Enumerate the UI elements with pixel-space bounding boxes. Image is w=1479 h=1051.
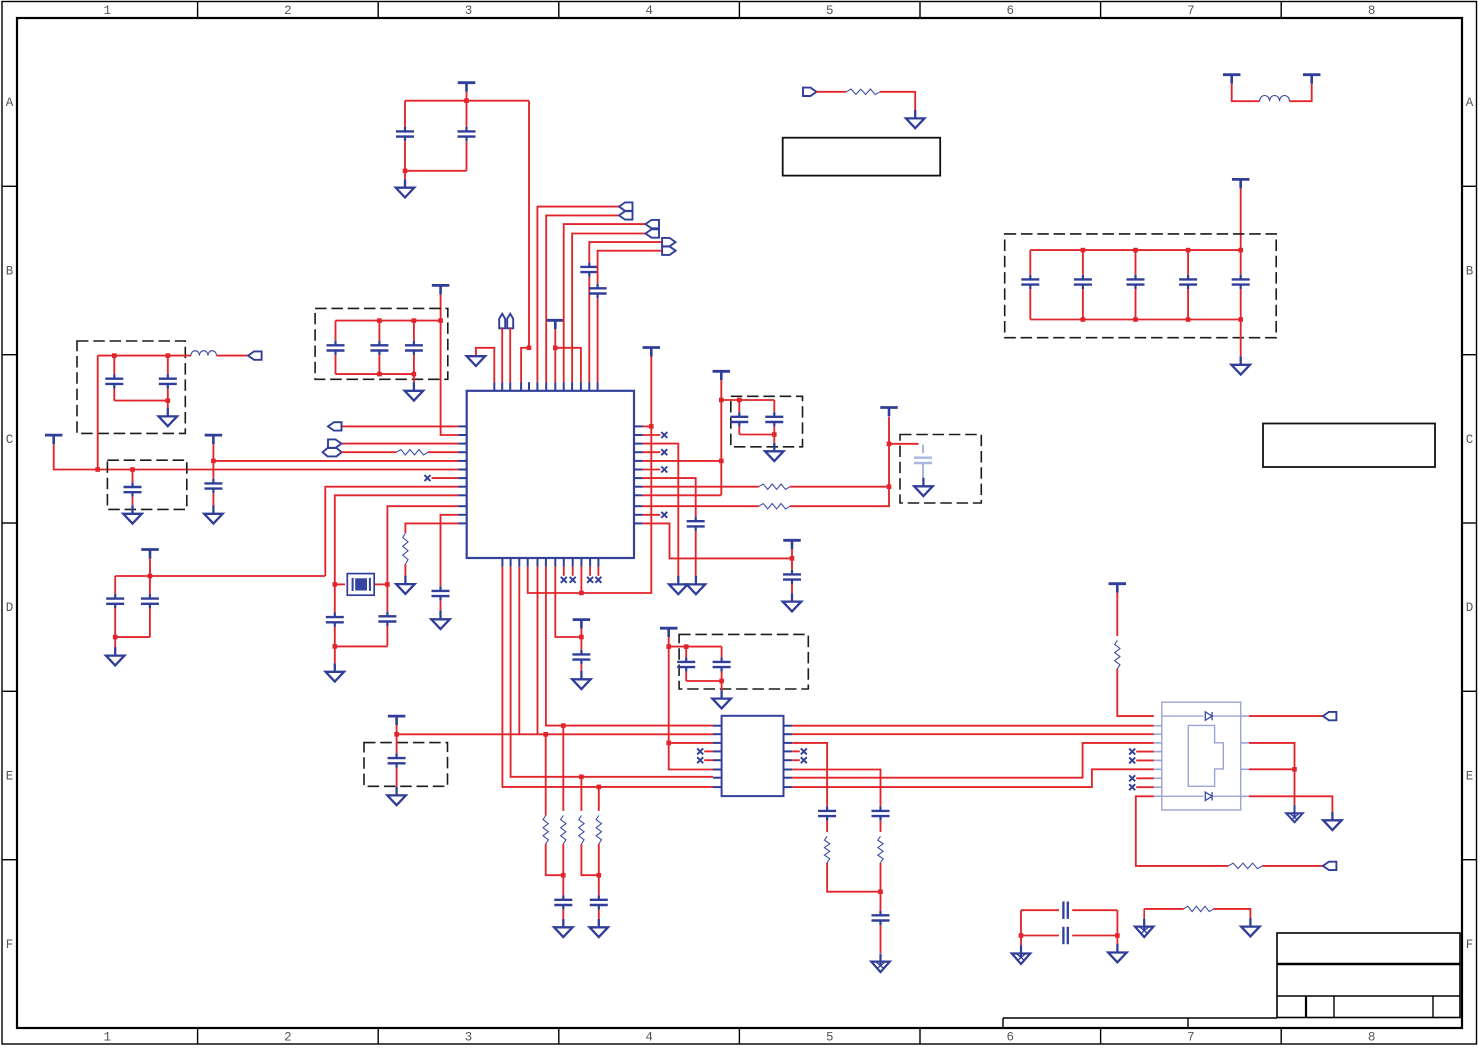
capacitor C36 [1063, 902, 1067, 919]
power P20 [45, 435, 63, 444]
svg-text:5: 5 [826, 1031, 834, 1045]
wire [441, 515, 459, 587]
wire shield [1136, 796, 1229, 866]
wire [686, 680, 721, 682]
crystal Y1 [347, 574, 374, 596]
wire [1116, 910, 1118, 935]
wire [501, 328, 503, 382]
capacitor C19 [432, 586, 450, 600]
wire [335, 321, 337, 341]
wire pin8R [643, 486, 759, 488]
IC U1 (main controller, QFP) [458, 382, 642, 566]
wire [1240, 320, 1242, 357]
no-connect [595, 577, 601, 583]
power P25 [783, 540, 801, 549]
junction [166, 398, 171, 403]
junction [561, 873, 566, 878]
resistor R14 [1184, 906, 1214, 911]
no-connect [570, 577, 576, 583]
ground [326, 663, 345, 681]
wire [792, 743, 827, 806]
power VDD P6 [547, 320, 565, 329]
wire [1249, 715, 1323, 717]
wire [1214, 909, 1251, 918]
wire [113, 356, 115, 375]
wire [738, 427, 740, 435]
junction [579, 775, 584, 780]
no-connect [697, 757, 703, 763]
junction [112, 353, 117, 358]
power P27 [573, 620, 591, 629]
junction [527, 346, 532, 351]
resistor R4 [759, 484, 790, 489]
wire [581, 844, 598, 875]
junction [1238, 317, 1243, 322]
junction [719, 398, 724, 403]
wire pin10R [643, 505, 759, 507]
power P12 [1223, 75, 1241, 84]
wire [466, 101, 468, 127]
wire [1240, 250, 1242, 275]
junction [166, 353, 171, 358]
power P30 [1109, 584, 1127, 593]
wire U1 pin9 to P7 [564, 224, 646, 382]
capacitor C10 [327, 341, 345, 355]
resistor R9 [596, 816, 601, 844]
ground [914, 478, 933, 496]
wire RX pair [511, 567, 713, 777]
wire [546, 844, 564, 875]
wire [773, 400, 775, 412]
wire [114, 576, 116, 594]
wire [643, 451, 661, 453]
capacitor C32 [590, 895, 608, 909]
svg-text:E: E [6, 770, 14, 784]
wire [643, 434, 661, 436]
wire [598, 251, 676, 284]
capacitor C34 [872, 806, 890, 820]
wire bus top [336, 320, 441, 322]
wire [413, 374, 415, 382]
diode D1 [1205, 712, 1212, 720]
capacitor C27 [572, 650, 590, 664]
wire [685, 672, 687, 681]
wire [167, 389, 169, 401]
wire U1 pin4 jog [521, 348, 529, 382]
wire [396, 734, 398, 753]
wire [212, 444, 214, 461]
wire [643, 469, 661, 471]
ground [554, 919, 573, 937]
capacitor C8 [1179, 275, 1197, 289]
capacitor C4 [589, 284, 607, 298]
wire [721, 681, 723, 690]
ground [765, 443, 784, 461]
wire [413, 321, 415, 341]
wire [1135, 289, 1137, 319]
svg-text:8: 8 [1368, 1031, 1376, 1045]
wire [563, 567, 565, 576]
power VDD P1 [458, 83, 476, 92]
junction [719, 679, 724, 684]
resistor R3 [403, 533, 408, 564]
chassis ground [1286, 805, 1303, 822]
wire [555, 567, 581, 637]
power P19 [205, 435, 223, 444]
capacitor C13 [204, 479, 222, 493]
svg-text:2: 2 [284, 1031, 292, 1045]
ground [405, 382, 424, 400]
capacitor C7 [1127, 275, 1145, 289]
wire [114, 400, 168, 402]
junction [561, 723, 566, 728]
no-connect [661, 512, 667, 518]
wire [378, 355, 380, 374]
wire VDD right rail [581, 357, 651, 594]
wire [1187, 250, 1189, 275]
wire [791, 558, 793, 569]
junction [1186, 317, 1191, 322]
port flag P18 [323, 448, 342, 456]
wire [669, 637, 713, 769]
junction [394, 732, 399, 737]
junction [719, 459, 724, 464]
wire U1 pin9L to XTAL [335, 495, 458, 584]
wire [704, 750, 713, 752]
wire [695, 531, 697, 576]
capacitor C24 [783, 570, 801, 584]
wire [115, 575, 325, 577]
wire [880, 92, 915, 110]
wire [1249, 743, 1295, 805]
ground [123, 505, 142, 523]
wire [1143, 909, 1145, 919]
wire [1136, 786, 1154, 788]
wire [1240, 188, 1242, 250]
group box GB3 (analog supply filter) [77, 341, 185, 433]
port flag P32 [1323, 862, 1337, 870]
wire [342, 443, 459, 445]
wire [404, 101, 406, 127]
wire [114, 637, 116, 647]
no-connect [661, 449, 667, 455]
junction [666, 741, 671, 746]
svg-text:D: D [1466, 601, 1474, 615]
wire [115, 636, 150, 638]
wire [528, 567, 582, 593]
junction [579, 635, 584, 640]
no-connect [1129, 775, 1135, 781]
junction [597, 785, 602, 790]
resistor R11 [878, 836, 883, 862]
wire [404, 171, 406, 179]
wire power jog to pin11 [555, 348, 581, 382]
wire U1 pin10L to XTAL [387, 506, 458, 584]
wire [792, 750, 800, 752]
capacitor C26 [765, 412, 783, 426]
svg-text:4: 4 [645, 1031, 653, 1045]
ground [106, 647, 125, 665]
wire [545, 734, 547, 811]
port flag P9 [662, 238, 676, 246]
junction [412, 372, 417, 377]
power P26 [713, 371, 731, 380]
junction [543, 732, 548, 737]
wire [334, 627, 336, 647]
wire TXN rail [397, 733, 713, 735]
wire [721, 399, 774, 401]
svg-text:F: F [6, 938, 14, 952]
wire [1072, 935, 1117, 937]
junction [1238, 248, 1243, 253]
junction [412, 318, 417, 323]
wire [502, 567, 713, 787]
svg-text:B: B [6, 265, 14, 279]
wire [1249, 796, 1332, 812]
capacitor C31 [554, 895, 572, 909]
wire [167, 356, 169, 375]
group box GB5 [900, 435, 981, 504]
junction [790, 556, 795, 561]
svg-text:A: A [6, 96, 14, 110]
svg-text:4: 4 [645, 4, 653, 18]
svg-text:C: C [1466, 433, 1474, 447]
wire [342, 451, 397, 453]
wire [790, 486, 889, 488]
wire U1 pin7 to P5 [546, 215, 619, 382]
wire [598, 787, 600, 811]
wire [792, 743, 1154, 778]
group box GB7 [679, 634, 808, 689]
capacitor C29 [713, 657, 731, 671]
ground [590, 919, 609, 937]
port flag P8 [646, 229, 660, 237]
resistor R6 [543, 816, 548, 844]
junction [148, 574, 153, 579]
wire [440, 294, 442, 320]
wire [1029, 250, 1031, 275]
title block [1003, 933, 1460, 1028]
wire [1136, 777, 1154, 779]
junction [1133, 248, 1138, 253]
junction [211, 459, 216, 464]
chassis ground [1012, 946, 1031, 965]
wire [1072, 909, 1117, 911]
wire [1290, 84, 1312, 102]
wire bus top [1030, 249, 1240, 251]
no-connect [801, 748, 807, 754]
power P15 [432, 285, 450, 294]
transformer U2 (ethernet magnetics) [713, 716, 792, 796]
junction [597, 873, 602, 878]
wire [545, 811, 547, 816]
wire U1 pin10 to P8 [572, 234, 645, 383]
wire [432, 477, 459, 479]
no-connect [697, 748, 703, 754]
wire [880, 925, 882, 953]
junction [1081, 317, 1086, 322]
svg-text:1: 1 [104, 1031, 112, 1045]
wire [428, 451, 458, 453]
group box GB4 [107, 460, 186, 509]
wire [335, 583, 345, 585]
junction [772, 432, 777, 437]
wire [149, 559, 151, 577]
junction [553, 346, 558, 351]
junction [1019, 933, 1024, 938]
capacitor C15 [159, 374, 177, 388]
wire [440, 601, 442, 611]
junction [878, 889, 883, 894]
wire [518, 567, 520, 735]
group box GB6 [731, 396, 803, 447]
port flag P17 [328, 439, 342, 447]
ground [1241, 918, 1260, 936]
wire [1020, 910, 1022, 935]
wire [335, 355, 337, 374]
wire [889, 443, 919, 445]
no-connect [661, 467, 667, 473]
wire [212, 461, 214, 479]
wire [773, 435, 775, 443]
wire [1021, 909, 1059, 911]
wire [1116, 936, 1118, 945]
svg-text:3: 3 [465, 4, 473, 18]
resistor R10 [824, 836, 829, 862]
svg-text:B: B [1466, 265, 1474, 279]
wire [790, 417, 889, 506]
wire [643, 514, 661, 516]
svg-text:7: 7 [1187, 4, 1195, 18]
wire [404, 564, 406, 576]
wire pin9R [643, 494, 722, 496]
port flag P3 [507, 314, 513, 329]
wire [669, 646, 722, 648]
wire [554, 329, 556, 348]
capacitor C35 [872, 911, 890, 925]
wire [1232, 84, 1260, 102]
capacitor C1 [396, 127, 414, 141]
capacitor C22 [687, 517, 705, 531]
wire [466, 92, 468, 101]
wire [132, 497, 134, 506]
wire pin8L feed [325, 487, 458, 576]
port flag P11 [803, 88, 817, 96]
power P28 [660, 628, 678, 637]
port flag P7 [646, 220, 660, 228]
junction [385, 582, 390, 587]
wire TD+ [792, 725, 1154, 727]
wire [386, 626, 388, 646]
no-connect [587, 577, 593, 583]
no-connect [1129, 784, 1135, 790]
wire [1240, 289, 1242, 319]
wire [149, 576, 151, 594]
wire [335, 645, 388, 647]
svg-text:C: C [6, 433, 14, 447]
wire [720, 380, 722, 495]
capacitor C30 [388, 754, 406, 768]
wire TXP [546, 567, 713, 726]
wire [792, 770, 880, 807]
ground [1323, 812, 1342, 830]
capacitor C12 [405, 341, 423, 355]
wire node VDD top [405, 100, 529, 102]
group box GB2 (PLL filter caps) [315, 308, 448, 379]
capacitor C28 [677, 657, 695, 671]
chassis ground [1135, 919, 1154, 938]
svg-text:A: A [1466, 96, 1474, 110]
wire [1249, 768, 1295, 770]
capacitor C14 [105, 374, 123, 388]
capacitor C11 [370, 341, 388, 355]
wire [580, 664, 582, 671]
junction [649, 424, 654, 429]
capacitor C18 [378, 612, 396, 626]
ground [712, 690, 731, 708]
wire [113, 389, 115, 401]
wire [580, 637, 582, 650]
wire [572, 567, 574, 576]
ground [572, 671, 591, 689]
wire [1117, 669, 1154, 716]
wire [598, 910, 600, 919]
resistor R5 [759, 504, 790, 509]
wire [396, 768, 398, 787]
port flag P2 [499, 314, 505, 329]
wire [589, 567, 591, 576]
wire [1136, 751, 1154, 753]
port flag P4 [619, 202, 633, 210]
wire [1021, 935, 1059, 937]
wire [217, 355, 249, 357]
junction [666, 644, 671, 649]
diode D2 [1205, 792, 1212, 800]
wire [685, 647, 687, 658]
capacitor C5 [1021, 275, 1039, 289]
wire [1262, 865, 1323, 867]
ferrite bead FB1 [1260, 95, 1290, 101]
capacitor C21 [141, 594, 159, 608]
wire [405, 523, 458, 533]
wire [827, 863, 880, 892]
capacitor C17 [326, 613, 344, 627]
wire [880, 821, 882, 832]
no-connect [1129, 749, 1135, 755]
resistor R1 [846, 89, 880, 94]
no-connect [561, 577, 567, 583]
power P13 [1303, 75, 1321, 84]
wire [792, 769, 1154, 787]
svg-text:8: 8 [1368, 4, 1376, 18]
wire [562, 910, 564, 919]
note box NB1 [783, 138, 941, 176]
svg-text:6: 6 [1007, 1031, 1015, 1045]
wire [643, 425, 652, 427]
capacitor C2 [458, 127, 476, 141]
wire [880, 863, 882, 911]
power P14 [1232, 179, 1250, 188]
wire [374, 583, 387, 585]
wire [1136, 759, 1154, 761]
no-connect [1129, 757, 1135, 763]
wire [669, 742, 713, 744]
wire pin5R [643, 460, 722, 462]
wire [554, 348, 556, 382]
capacitor C6 [1074, 275, 1092, 289]
svg-text:1: 1 [104, 4, 112, 18]
wire GB3 to rail [97, 356, 99, 470]
